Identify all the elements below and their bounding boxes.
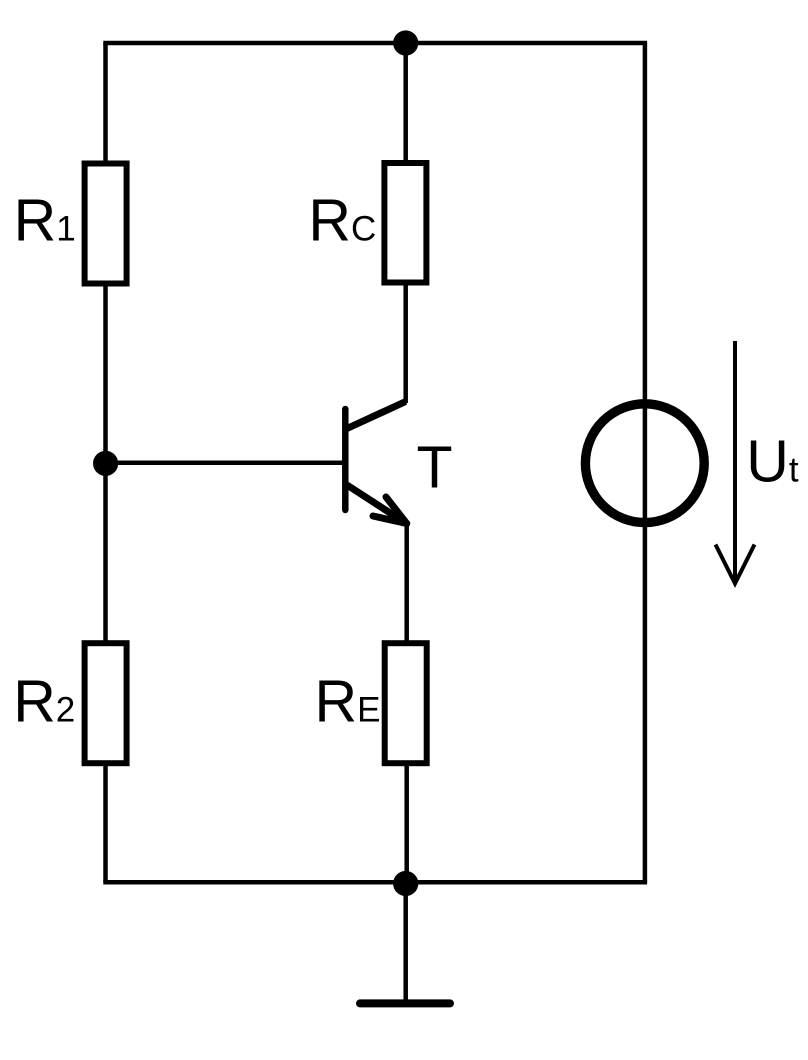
wire middle collector branch xyxy=(403,43,408,403)
wire left rail xyxy=(103,43,108,882)
transistor T xyxy=(345,402,452,524)
resistor R2 xyxy=(13,643,126,763)
wire bottom rail xyxy=(103,880,647,885)
node base junction xyxy=(93,451,118,476)
resistor R1 xyxy=(14,164,127,284)
source U1 circle xyxy=(585,404,704,523)
wire top rail xyxy=(103,41,647,46)
resistor RE xyxy=(315,643,427,763)
wire base xyxy=(106,461,346,466)
arrow Ut xyxy=(716,341,799,584)
node top junction xyxy=(393,30,418,55)
resistor RC xyxy=(308,163,426,283)
wire middle emitter branch xyxy=(404,522,409,882)
svg-text:T: T xyxy=(417,434,453,500)
ground xyxy=(360,884,450,1004)
wire right rail xyxy=(643,43,648,882)
node bottom junction xyxy=(393,871,418,896)
